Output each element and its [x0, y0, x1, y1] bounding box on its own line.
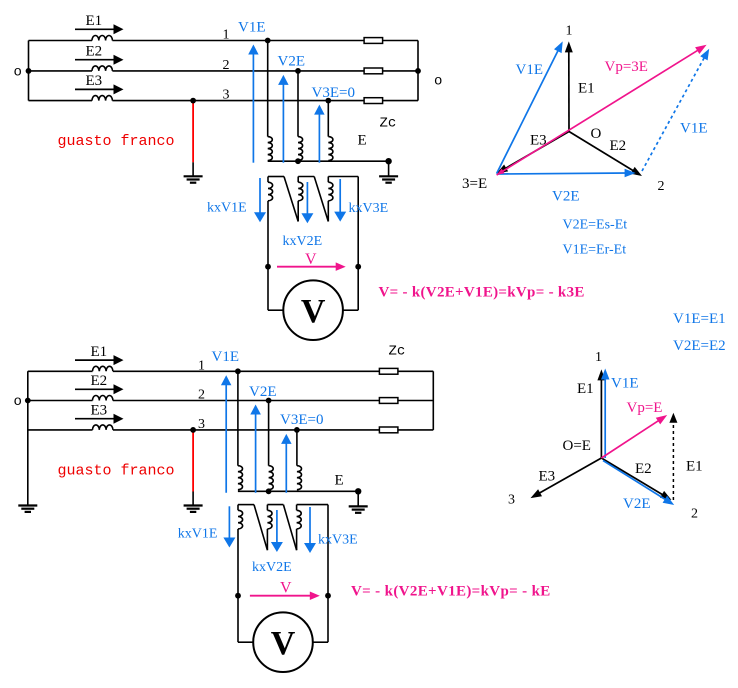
svg-text:E1: E1	[577, 381, 594, 397]
svg-text:V3E=0: V3E=0	[312, 85, 355, 101]
svg-text:1: 1	[595, 350, 602, 365]
svg-text:o: o	[14, 394, 22, 410]
svg-text:O: O	[591, 126, 602, 142]
svg-text:kxV2E: kxV2E	[283, 234, 323, 249]
svg-text:kxV3E: kxV3E	[349, 201, 389, 216]
svg-text:E2: E2	[91, 373, 108, 389]
svg-text:V2E: V2E	[249, 384, 277, 400]
svg-text:V3E=0: V3E=0	[280, 412, 323, 428]
svg-text:Vp=3E: Vp=3E	[605, 59, 648, 75]
svg-text:E2: E2	[86, 43, 103, 59]
svg-text:o: o	[434, 73, 442, 89]
svg-text:2: 2	[658, 179, 665, 194]
svg-text:1: 1	[198, 358, 205, 373]
svg-text:V: V	[305, 251, 317, 268]
svg-text:Vp=E: Vp=E	[627, 400, 663, 416]
svg-text:V1E=E1: V1E=E1	[673, 311, 726, 327]
svg-text:V: V	[280, 579, 292, 596]
svg-text:guasto franco: guasto franco	[58, 463, 175, 480]
svg-text:E3: E3	[91, 402, 108, 418]
svg-text:V1E: V1E	[516, 62, 544, 78]
svg-text:2: 2	[198, 388, 205, 403]
svg-text:V1E: V1E	[680, 121, 708, 137]
svg-text:V2E=E2: V2E=E2	[673, 338, 726, 354]
svg-text:kxV2E: kxV2E	[252, 560, 292, 575]
svg-text:guasto franco: guasto franco	[58, 133, 175, 150]
svg-text:3: 3	[223, 88, 230, 103]
svg-text:V= - k(V2E+V1E)=kVp= - k3E: V= - k(V2E+V1E)=kVp= - k3E	[379, 285, 585, 301]
svg-text:E: E	[335, 473, 344, 489]
svg-text:V: V	[301, 293, 326, 330]
svg-text:E1: E1	[686, 459, 703, 475]
svg-text:2: 2	[223, 58, 230, 73]
svg-text:1: 1	[223, 28, 230, 43]
svg-text:3=E: 3=E	[462, 176, 487, 192]
svg-text:E: E	[358, 133, 367, 149]
svg-text:V2E: V2E	[552, 189, 580, 205]
svg-text:E3: E3	[539, 469, 556, 485]
svg-text:1: 1	[566, 24, 573, 39]
svg-text:kxV3E: kxV3E	[318, 533, 358, 548]
svg-text:O=E: O=E	[563, 438, 591, 454]
svg-text:E2: E2	[635, 461, 652, 477]
svg-text:V1E: V1E	[238, 20, 266, 36]
svg-text:V2E: V2E	[278, 54, 306, 70]
svg-text:V2E=Es-Et: V2E=Es-Et	[563, 218, 628, 233]
svg-text:V= - k(V2E+V1E)=kVp= - kE: V= - k(V2E+V1E)=kVp= - kE	[351, 584, 551, 600]
svg-text:V: V	[271, 625, 296, 662]
svg-text:2: 2	[691, 507, 698, 522]
svg-text:E3: E3	[530, 133, 547, 149]
svg-text:E2: E2	[610, 138, 627, 154]
svg-text:E3: E3	[86, 73, 103, 89]
svg-text:3: 3	[198, 417, 205, 432]
svg-text:V1E: V1E	[611, 376, 639, 392]
svg-text:Zc: Zc	[380, 116, 397, 132]
svg-text:V1E: V1E	[212, 349, 240, 365]
svg-text:o: o	[14, 64, 22, 80]
svg-text:kxV1E: kxV1E	[207, 200, 247, 215]
svg-text:V2E: V2E	[623, 496, 651, 512]
svg-text:E1: E1	[86, 13, 103, 29]
svg-text:E1: E1	[91, 344, 108, 360]
svg-text:kxV1E: kxV1E	[178, 527, 218, 542]
svg-text:3: 3	[508, 493, 515, 508]
svg-text:Zc: Zc	[389, 344, 406, 360]
svg-text:V1E=Er-Et: V1E=Er-Et	[563, 243, 627, 258]
svg-text:E1: E1	[578, 81, 595, 97]
